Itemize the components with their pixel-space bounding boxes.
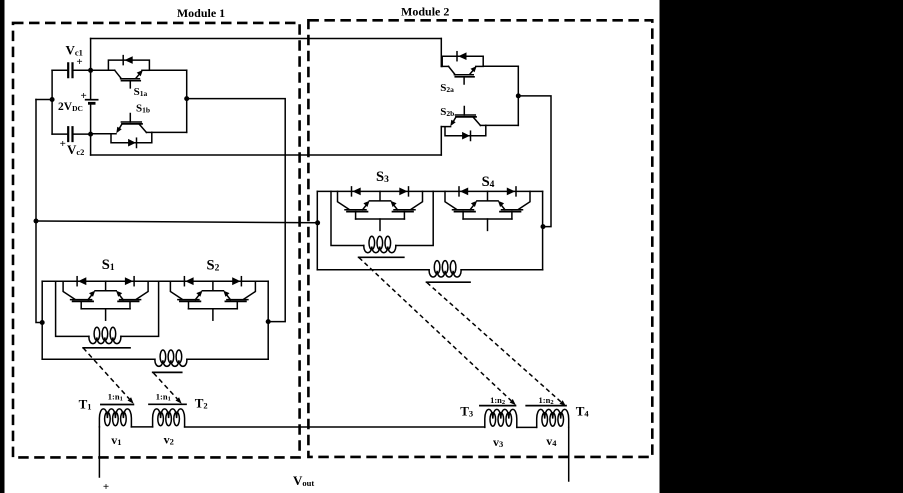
svg-text:+: +: [80, 90, 86, 102]
coupling dashed line T4: [427, 283, 561, 402]
switch S2: [170, 277, 255, 321]
wire bottom DC rail: [91, 154, 442, 156]
transformer T1 secondary coil: [99, 409, 131, 427]
svg-text:1:n2: 1:n2: [490, 395, 505, 406]
node Vc1 junction: [88, 68, 93, 73]
inductor winding2 (T2 primary): [155, 350, 187, 366]
core bar T1 primary: [83, 347, 130, 349]
node left bus bottom junction: [40, 320, 45, 325]
wire S1 left terminal vertical: [41, 281, 43, 359]
transformer T3 secondary bar: [480, 405, 516, 407]
svg-text:Module 1: Module 1: [177, 6, 225, 20]
svg-text:v2: v2: [164, 432, 174, 446]
svg-text:S2a: S2a: [440, 82, 454, 94]
inductor winding3 (T3 primary): [364, 236, 396, 252]
svg-text:Module 2: Module 2: [401, 5, 449, 19]
svg-text:S1a: S1a: [134, 86, 148, 98]
wire mid rail to module 2: [36, 221, 318, 223]
node battery left junction: [50, 97, 55, 102]
wire S2b right: [486, 124, 519, 126]
wire winding1 loop: [56, 281, 159, 336]
core bar T2 primary: [153, 371, 182, 373]
left black screenshot bar: [0, 0, 5, 493]
svg-text:v1: v1: [111, 433, 121, 447]
switch S4: [445, 187, 530, 231]
transformer T4 secondary coil: [537, 409, 569, 427]
wire S1 S2 top line: [42, 280, 268, 282]
svg-text:+: +: [103, 481, 109, 493]
switch S3: [338, 187, 423, 231]
coupling dashed line T2: [154, 373, 178, 399]
wire winding3 loop: [331, 191, 433, 245]
svg-text:T3: T3: [460, 404, 473, 419]
transistor S1b: [111, 114, 152, 148]
wire S1a right: [149, 69, 186, 71]
node left bus mid junction: [34, 219, 39, 224]
svg-text:Vout: Vout: [293, 473, 314, 488]
transistor S1a: [108, 56, 149, 88]
wire S2b left vertical to bottom rail: [440, 127, 442, 155]
wire S2a left: [441, 65, 448, 67]
wire module2 output link: [518, 96, 551, 227]
right black screenshot region: [660, 0, 903, 493]
wire T2 to T3 run: [185, 426, 485, 428]
svg-text:S2b: S2b: [440, 106, 454, 118]
wire S2b left: [441, 126, 450, 128]
wire battery left link: [36, 99, 52, 101]
wire module2 half-bridge vertical: [517, 66, 519, 125]
svg-text:2VDC: 2VDC: [58, 101, 83, 113]
transistor S2a: [442, 52, 483, 84]
wire half-bridge output vertical: [186, 70, 188, 132]
wire S1b left: [91, 133, 116, 135]
wire module1 output link: [187, 99, 286, 322]
wire winding4 run: [317, 269, 542, 271]
wire T1 left output lead: [98, 427, 100, 477]
transformer T2 secondary bar: [149, 403, 186, 405]
svg-text:S3: S3: [376, 169, 389, 185]
node S3 left junction: [315, 220, 320, 225]
svg-text:1:n1: 1:n1: [108, 391, 123, 402]
svg-text:T1: T1: [79, 397, 92, 412]
wire top DC rail: [91, 38, 442, 40]
wire module2 top corner: [440, 39, 442, 67]
transformer T3 secondary coil: [485, 409, 517, 427]
wire T4 right output lead: [568, 427, 570, 481]
battery 2VDC: [85, 100, 99, 104]
svg-text:S1: S1: [102, 257, 115, 273]
wire S4 right terminal vertical: [542, 191, 544, 269]
svg-text:+: +: [76, 56, 82, 68]
svg-text:1:n2: 1:n2: [539, 395, 554, 406]
svg-text:Vc2: Vc2: [67, 142, 84, 157]
svg-text:+: +: [60, 138, 66, 150]
wire S3 S4 top line: [317, 190, 542, 192]
wire S2a right: [483, 65, 518, 67]
node module2 midpoint: [516, 93, 521, 98]
transistor S2b: [445, 107, 486, 141]
transformer T4 secondary bar: [526, 405, 566, 407]
wire winding2 run: [42, 358, 268, 360]
wire S2 right terminal vertical: [267, 281, 269, 359]
svg-text:v4: v4: [546, 434, 557, 448]
node half-bridge midpoint: [184, 96, 189, 101]
switch S1: [63, 277, 148, 321]
wire DC-link center bus: [90, 39, 92, 156]
node Vc2 junction: [88, 132, 93, 137]
coupling dashed line T1: [83, 348, 129, 399]
coupling dashed line T3: [359, 258, 511, 401]
wire S1b right: [152, 131, 187, 133]
transformer T2 secondary coil: [153, 409, 185, 427]
core bar T4 primary: [427, 281, 471, 283]
svg-text:S2: S2: [207, 257, 220, 273]
svg-text:T2: T2: [195, 396, 208, 411]
svg-text:1:n1: 1:n1: [156, 392, 171, 403]
svg-text:S1b: S1b: [136, 103, 150, 115]
svg-text:S4: S4: [482, 174, 495, 190]
capacitor Vc1: [52, 62, 91, 78]
wire capacitor left bus: [51, 70, 53, 134]
wire module1 left bus: [36, 100, 42, 323]
module 1 dashed border: [13, 23, 300, 458]
svg-text:T4: T4: [576, 403, 590, 418]
node S2 right junction: [266, 319, 271, 324]
wire S1a left: [91, 69, 115, 71]
wire T1 T2 link: [131, 426, 152, 428]
node S4 right junction: [541, 224, 546, 229]
wire S3 left terminal vertical: [316, 191, 318, 269]
module 2 dashed border: [308, 20, 652, 457]
wire T3 T4 link: [517, 426, 537, 428]
inductor winding4 (T4 primary): [429, 261, 461, 277]
capacitor Vc2: [52, 126, 91, 142]
svg-text:v3: v3: [493, 435, 503, 449]
inductor winding1 (T1 primary): [89, 327, 121, 343]
core bar T3 primary: [359, 256, 404, 258]
transformer T1 secondary bar: [101, 404, 133, 406]
